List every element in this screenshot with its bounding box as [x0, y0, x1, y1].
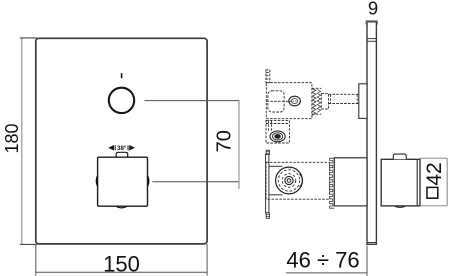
svg-text:38°: 38°	[117, 145, 127, 152]
svg-text:46 ÷ 76: 46 ÷ 76	[286, 248, 359, 273]
svg-text:180: 180	[2, 123, 22, 153]
svg-text:70: 70	[214, 130, 236, 152]
svg-text:9: 9	[368, 0, 378, 19]
svg-text:150: 150	[103, 252, 140, 276]
svg-text:42: 42	[423, 162, 446, 185]
